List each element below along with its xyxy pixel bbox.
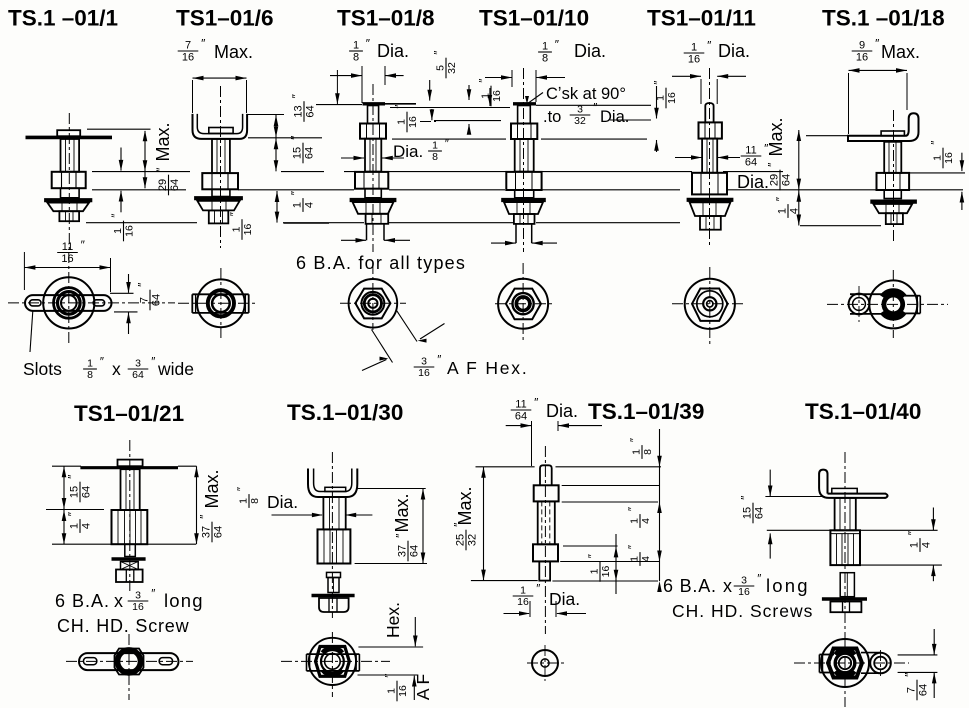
svg-text:32: 32 bbox=[446, 62, 458, 74]
label 15/64 for stud 6 bbox=[289, 135, 316, 163]
plan view stud 8 boss rings bbox=[362, 292, 385, 315]
stud TS.1-01/30 washer bbox=[312, 594, 355, 598]
svg-text:″: ″ bbox=[757, 574, 761, 586]
stud TS.1-01/39 top pin bbox=[540, 465, 552, 485]
plan view stud 10 outer circle bbox=[498, 279, 548, 329]
dimension 25/32 Max left of stud 39 bbox=[476, 466, 535, 468]
svg-text:8: 8 bbox=[432, 151, 438, 163]
dimension 11/64 Dia right of stud 11 shaft bbox=[675, 157, 702, 159]
plan view stud 18 centerlines bbox=[827, 303, 948, 305]
svg-text:16: 16 bbox=[688, 54, 700, 66]
svg-text:″: ″ bbox=[81, 238, 86, 252]
svg-text:″: ″ bbox=[154, 167, 168, 172]
plan view stud 10 hex nut bbox=[506, 289, 541, 320]
label 5/32 rotated right of stud 8 head bbox=[434, 51, 459, 79]
svg-text:29: 29 bbox=[769, 174, 781, 186]
stud TS1-01/6 bottom hex bbox=[209, 210, 229, 223]
stud TS.1-01/30 cap inside bracket bbox=[325, 487, 346, 491]
stud TS.1-01/1 hex nut bbox=[52, 172, 86, 188]
svg-text:1: 1 bbox=[629, 518, 641, 524]
dimension 1/16 right of stud 18 bbox=[909, 172, 965, 174]
stud TS1-01/8 threaded stub below bbox=[366, 224, 368, 241]
svg-text:1: 1 bbox=[909, 542, 921, 548]
svg-text:″: ″ bbox=[903, 672, 917, 677]
stud TS1-01/10 bottom hex bbox=[514, 214, 535, 224]
svg-text:A F: A F bbox=[413, 674, 433, 700]
datum line y120 right of stud 10 bbox=[610, 119, 651, 121]
dimension chain 15/64 and 1/4 left of stud 21 bbox=[52, 465, 81, 467]
svg-text:64: 64 bbox=[305, 105, 317, 117]
svg-text:1: 1 bbox=[691, 42, 697, 54]
stud TS1-01/10 shaft below hex bbox=[515, 190, 534, 198]
svg-text:″: ″ bbox=[588, 554, 600, 558]
svg-text:7: 7 bbox=[139, 297, 151, 303]
stud TS1-01/11 shaft bbox=[702, 139, 717, 173]
svg-text:1: 1 bbox=[396, 119, 408, 125]
svg-text:16: 16 bbox=[856, 52, 868, 64]
stud TS.1-01/39 centerline bbox=[544, 446, 546, 634]
dimension Hex flats on plan view 30 bbox=[358, 646, 423, 648]
svg-text:3: 3 bbox=[577, 104, 583, 116]
svg-text:″: ″ bbox=[437, 355, 441, 367]
plan view stud 18 lug bbox=[850, 293, 890, 295]
label 1/16 A F rotated bbox=[385, 674, 410, 702]
stud TS1-01/10 head plate bbox=[513, 102, 536, 105]
stud TS1-01/11 top pin bbox=[705, 103, 713, 122]
stud TS.1-01/18 centerline bbox=[893, 110, 895, 241]
datum line head-top extension right of stud 8 bbox=[385, 103, 416, 105]
stud TS1-01/11 dome nut bbox=[690, 202, 731, 216]
svg-text:″: ″ bbox=[201, 37, 206, 51]
svg-text:11: 11 bbox=[745, 145, 756, 157]
svg-text:1: 1 bbox=[353, 40, 359, 52]
plan view stud 6 channel tabs bbox=[192, 293, 248, 295]
svg-text:Cʼsk at 90°: Cʼsk at 90° bbox=[546, 85, 626, 103]
svg-text:37: 37 bbox=[201, 526, 213, 538]
stud TS1-01/10 lower hex bbox=[506, 172, 541, 190]
svg-text:″: ″ bbox=[366, 37, 371, 51]
stud TS1-01/8 head plate bbox=[363, 102, 386, 105]
dimension 1/16 Dia above stud 11 bbox=[684, 39, 712, 66]
stud TS.1-01/18 L-bracket bbox=[848, 113, 919, 141]
svg-text:″: ″ bbox=[479, 79, 491, 83]
svg-text:″: ″ bbox=[151, 357, 155, 369]
stud TS.1-01/1 bottom hex bbox=[59, 211, 79, 221]
svg-text:Max.: Max. bbox=[202, 469, 222, 508]
stud TS1-01/10 centerline bbox=[523, 68, 525, 252]
stud TS.1-01/18 bottom hex bbox=[886, 213, 903, 224]
stud TS.1-01/30 knurled body bbox=[318, 529, 351, 563]
stud TS1-01/8 dome nut bbox=[353, 202, 394, 214]
svg-text:TS.1–01/39: TS.1–01/39 bbox=[588, 399, 704, 424]
stud TS1-01/10 shaft bbox=[515, 139, 534, 172]
svg-text:11: 11 bbox=[62, 241, 73, 253]
label 29/64 Max rotated for stud 1 bbox=[153, 122, 173, 161]
stud TS1-01/6 shaft bbox=[212, 139, 230, 173]
stud TS1-01/10 upper hex nut bbox=[511, 124, 537, 140]
plan view stud 10 boss rings bbox=[513, 293, 534, 314]
svg-text:″: ″ bbox=[100, 357, 104, 369]
stud TS.1-01/40 screw head bbox=[830, 602, 861, 613]
svg-text:1: 1 bbox=[629, 556, 641, 562]
svg-text:6 B.A. for all types: 6 B.A. for all types bbox=[296, 253, 466, 273]
svg-text:15: 15 bbox=[292, 147, 304, 159]
small arrows left of stud 10 head bbox=[468, 85, 470, 100]
stud TS1-01/21 neck bbox=[125, 544, 136, 556]
stud TS1-01/21 top plate bbox=[80, 466, 178, 469]
plan view stud 1 lug plate with slots bbox=[25, 295, 112, 311]
svg-text:4: 4 bbox=[640, 518, 652, 524]
plan view stud 30 centerlines bbox=[281, 660, 390, 662]
svg-text:long: long bbox=[766, 575, 810, 596]
svg-text:″: ″ bbox=[434, 51, 446, 55]
note 3/16 A F Hex bbox=[414, 355, 442, 380]
svg-text:1: 1 bbox=[112, 228, 124, 234]
datum line y120 right of stud 8 bbox=[434, 120, 501, 122]
svg-text:″: ″ bbox=[875, 37, 880, 51]
svg-text:1: 1 bbox=[932, 155, 944, 161]
svg-text:1: 1 bbox=[386, 688, 398, 694]
svg-text:16: 16 bbox=[182, 52, 194, 64]
plan view stud 39 circles bbox=[532, 650, 558, 676]
svg-text:TS1–01/6: TS1–01/6 bbox=[176, 6, 274, 31]
svg-text:″: ″ bbox=[198, 514, 212, 519]
svg-text:4: 4 bbox=[304, 202, 316, 208]
stud TS.1-01/1 shaft bbox=[61, 139, 80, 172]
stud TS1-01/21 cap bbox=[118, 460, 143, 467]
svg-text:1: 1 bbox=[777, 208, 789, 214]
label 15/64 rotated for stud 21 bbox=[66, 474, 93, 502]
svg-text:TS.1–01/30: TS.1–01/30 bbox=[287, 400, 403, 425]
label 7/64 rotated for plan 40 bbox=[903, 672, 930, 700]
dimension 1/4 right of stud 40 bbox=[860, 529, 938, 531]
stud TS.1-01/39 middle shaft bbox=[538, 501, 555, 544]
svg-text:4: 4 bbox=[789, 208, 801, 214]
stud TS1-01/21 thread stub bbox=[121, 562, 139, 570]
plan view stud 1 washer circle bbox=[43, 277, 94, 328]
svg-text:Hex.: Hex. bbox=[383, 602, 403, 638]
svg-text:″: ″ bbox=[385, 674, 397, 678]
datum line y107 between studs 8 and 10 bbox=[390, 107, 510, 109]
plan view stud 18 lug end centerline bbox=[858, 286, 860, 322]
dimension 1/8 Dia above stud 10 bbox=[538, 38, 560, 65]
svg-text:16: 16 bbox=[242, 224, 254, 236]
svg-text:1: 1 bbox=[238, 498, 250, 504]
stud TS1-01/6 U channel bbox=[193, 114, 248, 139]
stud TS1-01/6 shaft below nut bbox=[212, 189, 230, 196]
plan view stud 21 centerlines bbox=[66, 660, 193, 662]
stud TS1-01/21 centerline bbox=[129, 440, 131, 592]
svg-text:16: 16 bbox=[738, 586, 750, 598]
dimension chain 13/64 and 15/64 right of stud 6 bbox=[275, 115, 277, 171]
small dimension arrows at stud 8 head bbox=[336, 70, 338, 104]
stud TS1-01/10 neck bbox=[518, 106, 531, 124]
stud TS.1-01/39 lower collar bbox=[533, 544, 558, 561]
stud TS1-01/8 centerline bbox=[372, 84, 374, 252]
svg-text:Dia.: Dia. bbox=[718, 41, 750, 61]
label 25/32 Max rotated for stud 39 bbox=[455, 486, 475, 525]
datum line nut-top level stud 8 to 10 bbox=[392, 138, 506, 140]
dimension arrows at stud 1 nut bbox=[120, 148, 122, 171]
svg-text:″: ″ bbox=[630, 438, 642, 442]
svg-text:TS.1 –01/1: TS.1 –01/1 bbox=[8, 6, 118, 31]
svg-text:16: 16 bbox=[418, 367, 430, 379]
svg-text:64: 64 bbox=[304, 147, 316, 159]
stud TS1-01/8 lower hex bbox=[355, 172, 388, 189]
svg-text:16: 16 bbox=[943, 152, 955, 164]
stud TS.1-01/1 washer bbox=[44, 198, 92, 202]
svg-text:Dia.: Dia. bbox=[377, 41, 409, 61]
svg-text:″: ″ bbox=[151, 589, 155, 601]
svg-text:8: 8 bbox=[353, 52, 359, 64]
svg-text:″: ″ bbox=[230, 212, 242, 216]
plan view stud 18 outer circle bbox=[869, 280, 917, 328]
stud TS.1-01/1 shaft below nut bbox=[61, 188, 80, 198]
svg-text:7: 7 bbox=[185, 40, 191, 52]
stud TS1-01/11 washer bbox=[687, 198, 734, 202]
plan view stud 11 outer circle bbox=[685, 279, 735, 329]
leader lines to AF Hex note bbox=[372, 330, 393, 363]
stud TS.1-01/1 centerline bbox=[68, 113, 70, 252]
label 1/4 rotated for stud 21 bbox=[66, 511, 93, 533]
svg-text:8: 8 bbox=[642, 449, 654, 455]
svg-text:7: 7 bbox=[906, 687, 918, 693]
svg-text:x: x bbox=[112, 359, 121, 379]
plan view stud 40 left tab bbox=[819, 654, 834, 656]
svg-text:16: 16 bbox=[61, 253, 73, 265]
svg-text:15: 15 bbox=[69, 486, 81, 498]
svg-text:13: 13 bbox=[293, 105, 305, 117]
stud TS1-01/6 centerline bbox=[220, 86, 222, 248]
svg-text:″: ″ bbox=[534, 396, 539, 410]
plan view stud 8 outer circle bbox=[349, 279, 398, 328]
svg-text:wide: wide bbox=[157, 359, 194, 379]
svg-text:5: 5 bbox=[435, 65, 447, 71]
svg-text:64: 64 bbox=[132, 369, 144, 381]
stud TS.1-01/30 screw head bbox=[319, 598, 349, 612]
svg-text:64: 64 bbox=[409, 545, 421, 557]
svg-text:16: 16 bbox=[491, 90, 503, 102]
plan view stud 1 boss rings bbox=[54, 288, 85, 319]
plan view stud 40 outer circle bbox=[821, 639, 869, 687]
svg-text:″: ″ bbox=[906, 530, 920, 535]
svg-text:.to: .to bbox=[543, 108, 561, 126]
label 1/16 right of stud 18 bbox=[931, 141, 956, 169]
label 1/16 below stud 6 bbox=[230, 212, 255, 240]
svg-text:9: 9 bbox=[859, 40, 865, 52]
svg-text:1: 1 bbox=[231, 226, 243, 232]
svg-text:″: ″ bbox=[593, 103, 597, 115]
plan view stud 8 hex nut bbox=[355, 289, 390, 319]
label 1/4 rotated for stud 40 bbox=[906, 530, 933, 552]
stud TS1-01/11 bottom hex bbox=[700, 216, 721, 230]
stud TS.1-01/1 cap bbox=[57, 130, 80, 136]
svg-text:″: ″ bbox=[555, 38, 560, 52]
plan view stud 6 centerlines bbox=[178, 302, 258, 304]
svg-text:15: 15 bbox=[742, 507, 754, 519]
svg-text:1: 1 bbox=[432, 140, 438, 152]
svg-text:″: ″ bbox=[766, 162, 780, 167]
plan view stud 11 hex nut bbox=[692, 289, 728, 321]
plan view stud 39 centerlines bbox=[527, 662, 564, 664]
svg-text:TS1–01/10: TS1–01/10 bbox=[479, 6, 589, 31]
svg-text:″: ″ bbox=[452, 522, 466, 527]
svg-text:4: 4 bbox=[921, 542, 933, 548]
right extension lines of stud 39 bbox=[556, 466, 662, 468]
svg-text:Dia.: Dia. bbox=[737, 172, 769, 192]
svg-text:3: 3 bbox=[421, 356, 427, 368]
svg-text:Dia.: Dia. bbox=[600, 108, 629, 126]
svg-text:Slots: Slots bbox=[23, 359, 62, 379]
plan view stud 18 right tab bbox=[905, 295, 920, 297]
svg-text:″: ″ bbox=[395, 105, 407, 109]
svg-text:16: 16 bbox=[517, 596, 529, 608]
dimension 29/64 Max left of stud 18 bbox=[798, 130, 800, 226]
stud TS1-01/6 washer bbox=[194, 196, 243, 200]
svg-text:64: 64 bbox=[754, 507, 766, 519]
plan view stud 30 hex silhouette bbox=[316, 647, 350, 677]
label 11/64 Dia before title 39 bbox=[511, 396, 539, 423]
svg-text:Max.: Max. bbox=[766, 117, 786, 156]
plan view stud 21 boss bbox=[115, 649, 144, 675]
dimension line 29/64 Max for stud 1 bbox=[144, 131, 146, 188]
label 37/64 Max rotated for stud 30 bbox=[392, 493, 412, 532]
plan view stud 40 hex silhouette bbox=[828, 649, 862, 678]
svg-text:″: ″ bbox=[111, 214, 123, 218]
dimension 7/16 Max above stud 6 bbox=[178, 37, 206, 64]
svg-text:37: 37 bbox=[397, 545, 409, 557]
dimension 11/16 above plan view 1 bbox=[57, 238, 85, 265]
stud TS.1-01/18 dome nut bbox=[873, 204, 912, 213]
plan view stud 11 rings bbox=[697, 291, 723, 317]
svg-text:″: ″ bbox=[536, 584, 540, 596]
svg-text:1: 1 bbox=[87, 358, 93, 370]
stud TS.1-01/40 angle bracket bbox=[819, 470, 884, 498]
plan view stud 10 centerlines bbox=[495, 303, 553, 305]
dimension extension from stud1 head top bbox=[87, 128, 151, 130]
stud TS.1-01/40 knurled body bbox=[830, 530, 860, 565]
stud TS.1-01/40 washer bbox=[822, 597, 867, 601]
svg-text:CH. HD. Screw: CH. HD. Screw bbox=[57, 616, 190, 636]
svg-text:A F Hex.: A F Hex. bbox=[447, 358, 529, 378]
svg-text:Dia.: Dia. bbox=[574, 41, 606, 61]
label 1/16 below stud 1 bbox=[111, 214, 136, 242]
stud TS1-01/6 dome nut bbox=[197, 201, 239, 211]
svg-text:4: 4 bbox=[81, 523, 93, 529]
svg-text:Max.: Max. bbox=[214, 42, 253, 62]
svg-text:Dia.: Dia. bbox=[267, 492, 298, 512]
svg-text:64: 64 bbox=[781, 174, 793, 186]
svg-text:″: ″ bbox=[136, 282, 150, 287]
plan view stud 18 heavy boss ring bbox=[882, 291, 905, 297]
svg-text:16: 16 bbox=[407, 116, 419, 128]
dimension 15/64 left of stud 40 bbox=[765, 496, 824, 498]
svg-text:x: x bbox=[723, 576, 732, 596]
stud TS1-01/11 centerline bbox=[709, 68, 711, 245]
datum line lower-hex-bottom level across sheet bbox=[92, 189, 186, 191]
stud TS1-01/21 washer bbox=[112, 557, 146, 561]
label Hex rotated bbox=[383, 602, 403, 638]
datum line lower-hex-top level across sheet bbox=[92, 171, 190, 173]
label 13/64 for stud 6 bbox=[290, 93, 317, 121]
svg-text:32: 32 bbox=[574, 115, 586, 127]
plan view stud 21 lug plate bbox=[79, 653, 179, 670]
stud TS.1-01/39 bottom pin bbox=[539, 561, 550, 580]
svg-text:4: 4 bbox=[640, 556, 652, 562]
arrows at stud 10 bottom stub bbox=[491, 242, 516, 244]
plan view stud 30 outer circle bbox=[309, 638, 356, 685]
svg-text:″: ″ bbox=[289, 190, 303, 195]
stud TS.1-01/1 top plate bbox=[26, 136, 113, 140]
svg-text:1: 1 bbox=[542, 41, 548, 53]
plan view stud 11 centerlines bbox=[672, 303, 746, 305]
plan view stud 6 washer circle bbox=[197, 279, 245, 327]
svg-text:TS.1 –01/18: TS.1 –01/18 bbox=[822, 6, 945, 31]
svg-text:Max.: Max. bbox=[455, 486, 475, 525]
svg-text:6 B.A.: 6 B.A. bbox=[663, 576, 717, 596]
leader line from slot to Slots note bbox=[30, 311, 33, 352]
svg-text:32: 32 bbox=[467, 534, 479, 546]
plan view stud 1 centerlines bbox=[8, 302, 175, 304]
stud TS.1-01/18 shaft bbox=[884, 142, 901, 173]
arrows at stud 30 shaft bbox=[272, 514, 323, 516]
svg-text:16: 16 bbox=[666, 92, 678, 104]
svg-text:″: ″ bbox=[289, 135, 303, 140]
svg-text:64: 64 bbox=[918, 684, 930, 696]
svg-text:16: 16 bbox=[600, 566, 612, 578]
svg-text:64: 64 bbox=[151, 294, 163, 306]
svg-text:3: 3 bbox=[135, 358, 141, 370]
svg-text:1: 1 bbox=[520, 585, 526, 597]
stud TS.1-01/40 cap on plate bbox=[832, 488, 857, 493]
svg-text:64: 64 bbox=[213, 526, 225, 538]
svg-text:1: 1 bbox=[292, 202, 304, 208]
svg-text:″: ″ bbox=[654, 81, 666, 85]
svg-text:Max.: Max. bbox=[153, 122, 173, 161]
svg-text:″: ″ bbox=[707, 39, 712, 53]
stud TS.1-01/18 shaft below nut bbox=[884, 190, 901, 199]
svg-text:1: 1 bbox=[69, 523, 81, 529]
dimension 1/8 Dia above stud 8 bbox=[349, 37, 371, 64]
plan view stud 30 rings bbox=[321, 650, 344, 673]
svg-text:″: ″ bbox=[931, 141, 943, 145]
arrows at stud 8 shaft for Dia 1/8 bbox=[341, 157, 364, 159]
label 29/64 Max rotated for stud 18 bbox=[766, 117, 786, 156]
svg-text:64: 64 bbox=[81, 486, 93, 498]
datum line head-top level right of stud 10 bbox=[536, 104, 651, 106]
label 1/4 rotated for stud 18 bbox=[774, 196, 801, 218]
stud TS1-01/11 lower hex bbox=[692, 173, 727, 195]
svg-text:Max.: Max. bbox=[392, 493, 412, 532]
label 1/16 right of stud 8 neck bbox=[395, 105, 420, 133]
dimension 37/64 Max right of stud 21 bbox=[178, 465, 197, 467]
svg-text:11: 11 bbox=[515, 399, 526, 411]
svg-text:1: 1 bbox=[589, 568, 601, 574]
stud TS1-01/10 washer bbox=[501, 198, 546, 202]
svg-text:3: 3 bbox=[741, 575, 747, 587]
label 1/16 left of stud 10 head bbox=[479, 79, 504, 107]
svg-text:Max.: Max. bbox=[881, 42, 920, 62]
svg-text:25: 25 bbox=[455, 534, 467, 546]
dimension 1/16 Dia below stud 39 bbox=[513, 584, 541, 609]
stud TS1-01/8 washer bbox=[350, 198, 397, 202]
stud TS.1-01/30 screw below bbox=[327, 572, 341, 577]
svg-text:3: 3 bbox=[135, 590, 141, 602]
arrows at stud 8 bottom stub bbox=[341, 239, 366, 241]
stud TS1-01/21 screw head bbox=[116, 570, 143, 583]
datum line stud-bottom level across sheet bbox=[86, 222, 197, 224]
stud TS.1-01/40 shaft bbox=[835, 498, 856, 530]
